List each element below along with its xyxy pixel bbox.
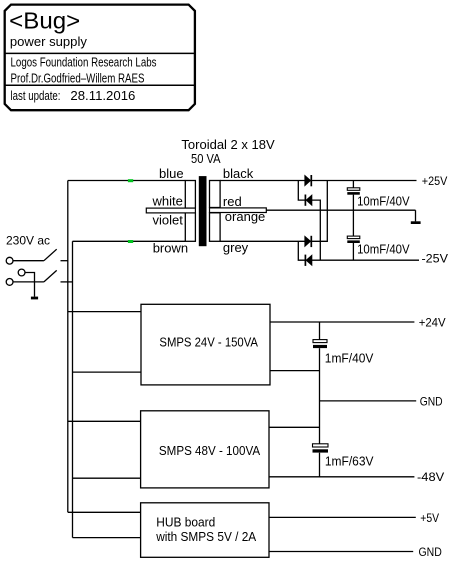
svg-text:-25V: -25V xyxy=(422,251,449,265)
wire GND output xyxy=(320,400,417,402)
transformer T1 core xyxy=(199,176,207,246)
wire D2 anode down to -25V rail xyxy=(312,200,321,260)
secondary center tap link red-orange xyxy=(210,208,267,213)
transformer T1 primary winding lower xyxy=(185,213,195,242)
wire N to switch xyxy=(13,281,44,283)
transformer T1 primary winding upper xyxy=(185,181,195,209)
wire node black to D2 xyxy=(298,181,305,201)
transformer T1 secondary winding upper xyxy=(210,181,221,208)
svg-text:1mF/63V: 1mF/63V xyxy=(325,454,374,468)
switch S1 blade bottom xyxy=(44,270,57,282)
svg-text:violet: violet xyxy=(153,212,184,227)
svg-text:<Bug>: <Bug> xyxy=(9,8,80,34)
wire mains A to SMPS48 xyxy=(68,420,141,422)
svg-text:grey: grey xyxy=(223,240,249,255)
svg-text:with SMPS 5V / 2A: with SMPS 5V / 2A xyxy=(155,529,256,544)
svg-text:28.11.2016: 28.11.2016 xyxy=(70,88,135,103)
HUB board box xyxy=(141,503,269,558)
wire +5V output xyxy=(269,516,416,518)
plug pin L circle xyxy=(6,257,13,264)
wire -48V output xyxy=(269,476,414,478)
wire earth pin down xyxy=(25,273,35,297)
svg-text:230V ac: 230V ac xyxy=(6,233,50,247)
wire center tap to ground xyxy=(266,209,415,211)
wire grey secondary bottom xyxy=(220,240,305,242)
junction marker green blue wire xyxy=(128,179,133,182)
svg-text:Logos Foundation Research Labs: Logos Foundation Research Labs xyxy=(11,54,157,69)
switch S1 stub top xyxy=(61,260,68,262)
wire mains B to HUB xyxy=(73,537,141,539)
wire mains B to SMPS48 xyxy=(73,477,141,479)
svg-text:HUB board: HUB board xyxy=(156,514,215,529)
svg-text:brown: brown xyxy=(153,241,188,256)
SMPS 24V box xyxy=(141,304,270,385)
plug pin earth circle xyxy=(18,269,25,276)
svg-text:last update:: last update: xyxy=(11,88,61,103)
wire +25V rail xyxy=(311,180,416,182)
svg-text:GND: GND xyxy=(419,545,443,559)
wire D3 cathode up to +25V rail xyxy=(311,181,327,242)
capacitor C3 1mF/40V xyxy=(313,340,327,349)
SMPS 48V box xyxy=(141,411,269,488)
wire capacitor bus C1 C2 xyxy=(352,181,354,261)
plug pin N circle xyxy=(6,279,13,286)
diode D4 xyxy=(305,255,312,266)
wire -25V rail xyxy=(312,259,419,261)
svg-text:-48V: -48V xyxy=(417,470,444,484)
svg-text:blue: blue xyxy=(159,166,184,181)
svg-text:SMPS 48V - 100VA: SMPS 48V - 100VA xyxy=(159,443,260,458)
svg-text:GND: GND xyxy=(420,394,443,408)
svg-text:+25V: +25V xyxy=(422,174,448,188)
capacitor C4 1mF/63V xyxy=(313,444,329,453)
title box frame xyxy=(5,5,195,111)
wire gnd bus vertical xyxy=(319,322,321,477)
switch S1 blade top xyxy=(44,249,57,261)
diode D2 xyxy=(305,195,312,206)
svg-text:+5V: +5V xyxy=(420,511,439,525)
wire +24V output xyxy=(270,321,414,323)
svg-text:Prof.Dr.Godfried–Willem RAES: Prof.Dr.Godfried–Willem RAES xyxy=(11,70,145,85)
diode D3 xyxy=(305,236,312,247)
svg-text:1mF/40V: 1mF/40V xyxy=(325,352,374,366)
ground symbol right xyxy=(411,210,421,224)
title box separator 1 xyxy=(5,52,195,54)
wire mains A to HUB xyxy=(68,511,141,513)
wire blue primary top xyxy=(68,180,186,182)
svg-text:+24V: +24V xyxy=(419,315,446,329)
wire SMPS24 0V output xyxy=(270,370,320,372)
transformer T1 secondary winding lower xyxy=(210,213,221,242)
capacitor C2 10mF/40V xyxy=(347,236,360,243)
svg-text:10mF/40V: 10mF/40V xyxy=(357,243,410,257)
svg-text:50 VA: 50 VA xyxy=(191,151,221,166)
primary series link white-violet xyxy=(146,208,195,213)
mains bus B vertical xyxy=(72,241,74,537)
wire L to switch xyxy=(13,260,44,262)
wire mains A to SMPS24 xyxy=(68,311,141,313)
wire mains B to SMPS24 xyxy=(73,371,142,373)
diode D1 xyxy=(305,175,312,186)
wire brown primary bottom xyxy=(73,240,186,242)
capacitor C1 10mF/40V xyxy=(347,188,360,195)
junction marker green brown wire xyxy=(128,240,133,243)
svg-text:SMPS 24V - 150VA: SMPS 24V - 150VA xyxy=(159,335,258,350)
mains bus A vertical xyxy=(67,181,69,513)
svg-text:white: white xyxy=(152,194,183,209)
svg-text:red: red xyxy=(223,194,242,209)
wire HUB GND output xyxy=(269,551,413,553)
svg-text:10mF/40V: 10mF/40V xyxy=(357,195,410,209)
wire SMPS48 0V output to gnd bus xyxy=(269,426,320,428)
wire black secondary top xyxy=(220,180,305,182)
svg-text:black: black xyxy=(223,166,254,181)
wire node grey to D4 xyxy=(298,241,305,260)
switch S1 stub bottom xyxy=(61,281,73,283)
title box separator 2 xyxy=(5,84,195,86)
svg-text:orange: orange xyxy=(225,209,265,224)
svg-text:power supply: power supply xyxy=(10,34,87,49)
earth symbol xyxy=(31,297,38,300)
